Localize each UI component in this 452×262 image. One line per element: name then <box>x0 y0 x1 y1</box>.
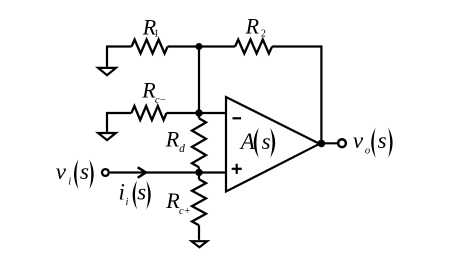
svg-text:v: v <box>353 128 364 153</box>
node: inverting input junction dot <box>195 109 202 116</box>
svg-text:d: d <box>179 143 185 155</box>
svg-text:s: s <box>378 128 387 153</box>
svg-text:s: s <box>262 129 271 154</box>
resistor R2 <box>235 40 272 54</box>
resistor Rd (vertical) <box>192 118 206 167</box>
svg-text:i: i <box>119 179 125 204</box>
svg-text:−: − <box>160 95 166 106</box>
node: output junction dot <box>318 140 326 148</box>
svg-text:i: i <box>68 176 71 187</box>
resistor Rc- <box>132 106 167 120</box>
svg-text:1: 1 <box>154 29 159 40</box>
wire: Rc- to inverting input of op-amp <box>167 112 227 114</box>
label ii(s) <box>119 179 151 209</box>
svg-text:2: 2 <box>261 29 266 40</box>
node: non-inverting input junction dot <box>195 169 202 176</box>
svg-text:v: v <box>56 159 67 184</box>
wire: input line vi to non-inverting input <box>110 171 226 173</box>
op-amp minus sign <box>233 117 242 119</box>
svg-text:o: o <box>365 145 370 156</box>
wire: plus node down to Rc+ <box>198 172 200 179</box>
wire: ground1 stub to R1 left lead <box>107 47 132 67</box>
svg-text:A: A <box>239 129 256 154</box>
svg-text:R: R <box>165 188 180 213</box>
label R2 <box>245 14 266 40</box>
wire: ground2 stub to Rc- left lead <box>107 113 132 132</box>
label R1 <box>142 14 159 39</box>
resistor Rc+ (vertical) <box>192 179 206 225</box>
label A(s) <box>239 128 275 158</box>
terminal: input open circle <box>102 169 109 176</box>
op-amp plus sign <box>232 168 242 170</box>
wire: R1 to R2 <box>168 45 236 47</box>
wire: output node to terminal <box>321 142 337 144</box>
label Rc+ <box>165 188 190 217</box>
label Rc- <box>141 77 166 106</box>
resistor R1 <box>132 40 168 54</box>
arrow: input current direction <box>138 167 146 177</box>
label Rd <box>165 127 185 156</box>
terminal: output open circle <box>338 139 346 147</box>
wire: R2 to feedback corner down to output node <box>272 47 321 144</box>
svg-text:s: s <box>137 179 146 204</box>
svg-text:i: i <box>126 197 129 208</box>
wire: Rc+ to ground3 <box>198 225 200 240</box>
label vo(s) <box>353 128 393 158</box>
svg-text:s: s <box>80 159 89 184</box>
wire: vertical bus from R1 node down to inverting node <box>198 47 200 119</box>
node A: junction dot R1/R2 <box>196 43 203 50</box>
ground 3 <box>192 241 208 247</box>
op-amp U1 triangle <box>226 97 320 192</box>
label vi(s) <box>56 159 94 189</box>
ground 1 <box>98 68 116 75</box>
ground 2 <box>98 133 116 140</box>
svg-text:R: R <box>245 14 260 39</box>
svg-text:+: + <box>184 206 190 217</box>
svg-text:R: R <box>165 127 180 152</box>
wire: Rd bottom to plus node <box>198 167 200 172</box>
